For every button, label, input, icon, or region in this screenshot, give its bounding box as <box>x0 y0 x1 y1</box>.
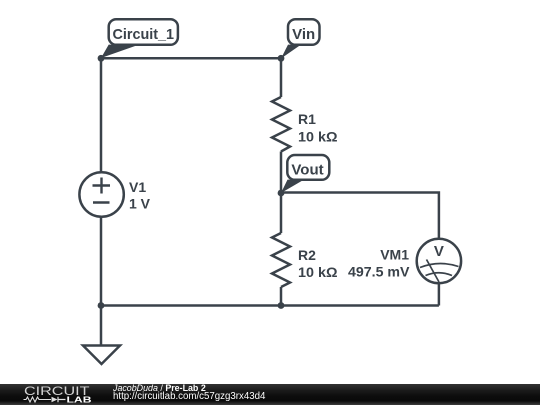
svg-text:R2: R2 <box>298 247 316 263</box>
svg-text:V1: V1 <box>129 179 146 195</box>
voltage source V1 <box>79 172 123 216</box>
net label Vout box <box>287 155 329 180</box>
wire R2 bottom to bottom rail <box>280 287 283 306</box>
footer author/title and url <box>113 383 206 393</box>
V1 plus sign <box>93 178 111 194</box>
junction dot node Vout <box>278 190 285 197</box>
wire Vin node to R1 top <box>280 58 283 97</box>
svg-text:Vin: Vin <box>292 26 315 43</box>
CircuitLab logo <box>0 384 110 405</box>
wire Vout node to R2 top <box>280 193 283 233</box>
VM1 needle <box>427 260 440 283</box>
svg-text:VM1: VM1 <box>380 247 409 263</box>
node label Circuit_1 box <box>109 19 178 45</box>
svg-text:497.5 mV: 497.5 mV <box>348 264 410 280</box>
wire V1 bottom to bottom rail <box>100 217 103 306</box>
junction dot node Circuit_1 <box>98 55 105 62</box>
svg-text:R1: R1 <box>298 111 316 127</box>
junction dot bottom R2 <box>278 302 285 309</box>
wire R1 bottom to Vout node <box>280 152 283 194</box>
wire voltmeter bottom lead <box>438 284 441 306</box>
voltmeter VM1 <box>417 239 461 283</box>
VM1 meter arc small <box>426 273 453 276</box>
net label Vin tail <box>281 45 301 59</box>
footer bar <box>0 384 540 405</box>
wire bottom rail <box>101 304 439 307</box>
junction dot bottom left <box>98 302 105 309</box>
junction dot node Vin <box>278 55 285 62</box>
net label Vout tail <box>281 180 304 193</box>
svg-text:10 kΩ: 10 kΩ <box>298 264 338 280</box>
svg-text:10 kΩ: 10 kΩ <box>298 128 338 144</box>
logo resistor zigzag and diode <box>24 397 52 402</box>
wire Vout node to voltmeter <box>281 193 439 240</box>
svg-text:Vout: Vout <box>291 161 323 178</box>
node label Circuit_1 tail <box>101 45 139 58</box>
VM1 meter arc large <box>420 263 459 267</box>
resistor R2 <box>272 233 290 287</box>
net label Vin box <box>288 19 320 45</box>
wire top rail Circuit_1 to Vin <box>101 57 281 60</box>
svg-text:Circuit_1: Circuit_1 <box>113 26 175 43</box>
V1 minus sign <box>93 201 110 203</box>
svg-text:LAB: LAB <box>67 395 92 405</box>
svg-text:1 V: 1 V <box>129 196 151 212</box>
resistor R1 <box>272 97 290 152</box>
svg-text:V: V <box>434 243 444 260</box>
ground <box>100 306 103 346</box>
wire left vertical to V1 top <box>100 58 103 172</box>
